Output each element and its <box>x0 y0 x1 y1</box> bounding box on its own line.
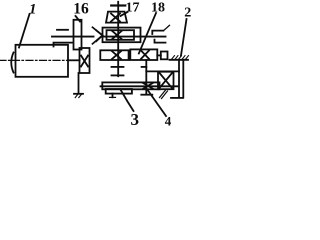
V1 top bearing right tick <box>120 4 126 6</box>
row3 shaft line <box>101 85 179 87</box>
svg-text:2: 2 <box>184 5 191 20</box>
svg-text:1: 1 <box>29 2 37 18</box>
svg-text:3: 3 <box>131 110 140 128</box>
cross in lower pulley <box>81 56 88 67</box>
V1 top bearing left tick <box>111 4 117 6</box>
cross in bevel gear <box>111 14 120 22</box>
leader line for 4 <box>146 87 167 116</box>
lower pulley/gear of pair 16 <box>80 48 90 73</box>
vertical shaft 2 right line <box>182 60 184 98</box>
upper pulley/gear of pair 16 <box>74 20 82 50</box>
leader line for 2 <box>181 19 187 56</box>
leader line for 17 <box>121 12 128 16</box>
leader line for 1 <box>19 14 30 48</box>
cross in row2 left gear <box>112 51 121 59</box>
shaft I right bearing hatch tick <box>164 25 170 30</box>
coupling chevron outer <box>93 27 103 44</box>
frame hatch ticks <box>172 56 189 60</box>
frame hatch support line <box>170 59 189 61</box>
shaft I left bearing lower tick <box>54 43 73 47</box>
leader line for 3 <box>120 90 133 112</box>
stub under under-box <box>112 94 114 98</box>
motor centerline (dash-dot) <box>0 59 67 61</box>
svg-text:18: 18 <box>151 0 165 15</box>
motor output shaft <box>68 59 80 61</box>
cross in row1 gear <box>112 31 122 39</box>
bearing bar under row3 cross <box>141 94 152 96</box>
row2 gear box right <box>130 49 157 60</box>
row2 gear box left <box>100 50 128 60</box>
row3 under box <box>106 89 132 94</box>
V2 bearing tick <box>142 66 147 68</box>
support stem below pulley <box>78 73 80 94</box>
row1 inner gear <box>107 30 135 40</box>
shaft I right bearing upper bar <box>152 31 163 34</box>
vertical shaft V1 <box>117 2 119 76</box>
motor M body <box>16 45 69 77</box>
small gear box right of row2 <box>161 52 168 60</box>
right gear box with cross <box>158 72 174 90</box>
diagonal ticks below right box <box>160 90 167 98</box>
shaft IV horizontal <box>146 70 179 72</box>
support foot hatches <box>75 94 78 97</box>
cross in right gear box <box>160 73 173 88</box>
bevel gear 17 (trapezoid) <box>106 12 127 23</box>
vertical shaft V2 <box>145 60 147 94</box>
row1 outer gear block <box>103 28 141 43</box>
stub foot tick <box>110 96 116 98</box>
svg-text:17: 17 <box>126 0 140 15</box>
row3 gear box <box>102 82 159 89</box>
shaft I right bearing lower bar <box>155 40 166 43</box>
V1 bottom bearing upper bar <box>112 66 124 68</box>
leader line for 16 <box>76 16 81 22</box>
cross in row2 right gear <box>141 51 149 59</box>
V1 bottom bearing lower bar <box>112 74 124 76</box>
support foot tick <box>74 93 83 95</box>
cross in row3 gear <box>143 83 153 89</box>
vertical shaft 2 left line <box>178 60 180 98</box>
shaft I left bearing upper tick <box>57 29 68 31</box>
shaft tick row2 to small box <box>157 54 161 56</box>
leader line for 18 <box>139 13 156 54</box>
motor shaft end cap <box>11 53 13 73</box>
shaft 2 bottom bar <box>171 97 183 99</box>
coupling chevron inner <box>96 30 102 41</box>
shaft I <box>52 36 94 38</box>
